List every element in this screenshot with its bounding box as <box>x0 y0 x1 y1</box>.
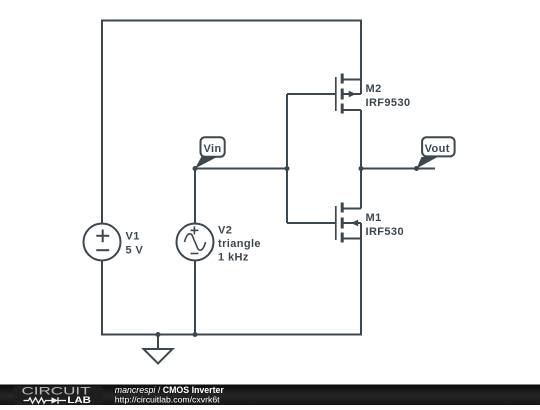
svg-text:http://circuitlab.com/cxvrk6t: http://circuitlab.com/cxvrk6t <box>115 395 220 405</box>
net flag Vout <box>417 137 455 168</box>
wire M1 gate <box>287 222 336 224</box>
svg-text:V1: V1 <box>126 231 140 243</box>
label M1 <box>366 212 404 238</box>
svg-text:V2: V2 <box>218 225 232 237</box>
wire Vin node to V2 plus <box>194 169 196 224</box>
footer bar <box>0 385 540 406</box>
svg-text:M1: M1 <box>366 212 382 224</box>
wire gate bus vertical <box>286 94 288 223</box>
wire M2 drain to M1 drain (through output node) <box>360 110 362 209</box>
transistor M1 <box>336 203 361 243</box>
svg-text:1 kHz: 1 kHz <box>218 252 249 264</box>
node gate bus junction <box>285 166 290 171</box>
wire Vin horizontal <box>195 168 287 170</box>
wire left rail lower <box>101 261 103 335</box>
node Vin junction <box>193 166 198 171</box>
wire VDD to M2 source <box>360 20 362 95</box>
voltage source V1 <box>84 224 121 261</box>
node output junction <box>359 166 364 171</box>
label V1 <box>126 231 144 257</box>
node V2 junction <box>193 332 198 337</box>
wire bottom rail <box>101 334 361 336</box>
svg-text:5 V: 5 V <box>126 245 144 257</box>
wire top rail <box>102 20 361 22</box>
wire M1 source to bottom rail <box>360 223 362 336</box>
wire V2 minus to bottom rail <box>194 261 196 335</box>
wire left rail upper <box>101 20 103 224</box>
node ground junction <box>156 332 161 337</box>
ground <box>144 349 173 364</box>
svg-text:IRF530: IRF530 <box>366 226 404 238</box>
svg-text:Vout: Vout <box>425 143 450 155</box>
node Vout tap <box>414 166 419 171</box>
net flag Vin <box>195 137 225 168</box>
svg-text:LAB: LAB <box>67 395 91 405</box>
footer title text <box>115 385 225 404</box>
transistor M2 <box>336 74 361 114</box>
svg-text:triangle: triangle <box>218 238 261 250</box>
label M2 <box>366 83 411 109</box>
svg-text:IRF9530: IRF9530 <box>366 97 411 109</box>
wire ground stem <box>157 335 159 350</box>
svg-text:M2: M2 <box>366 83 382 95</box>
voltage source V2 <box>177 224 214 261</box>
label V2 <box>218 225 261 264</box>
svg-text:Vin: Vin <box>204 143 222 155</box>
logo CircuitLab <box>22 386 92 405</box>
wire output to Vout stub <box>361 168 435 170</box>
wire M2 gate <box>287 93 336 95</box>
